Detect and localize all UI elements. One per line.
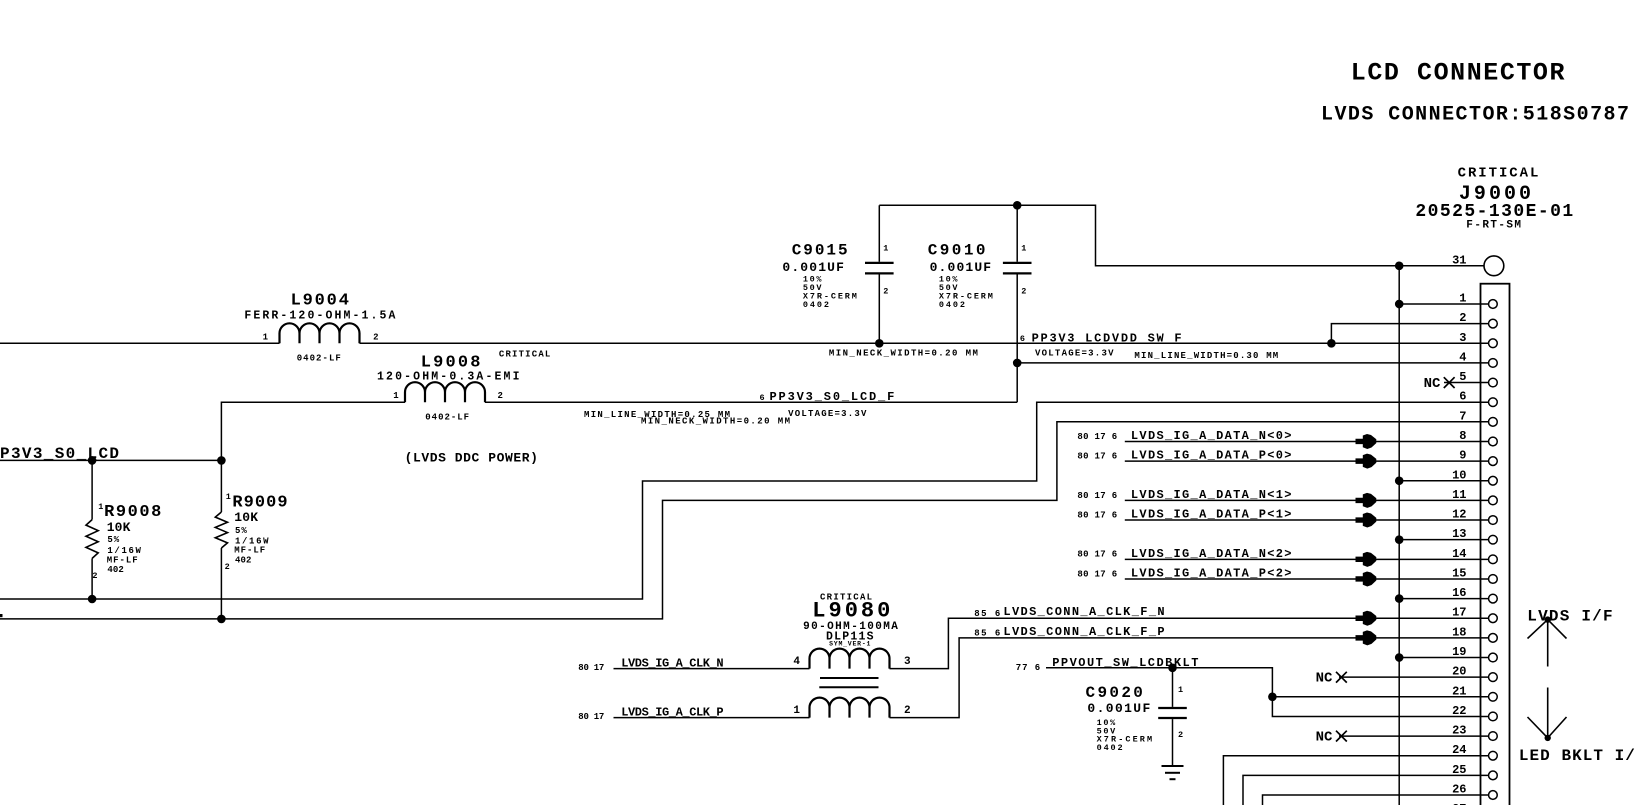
svg-text:80 17: 80 17 bbox=[578, 712, 604, 722]
R9009 tolerance 5% bbox=[235, 526, 247, 536]
wire L9008 left leg bbox=[221, 402, 405, 460]
net name LVDS_CONN_A_CLK_F_P bbox=[1003, 625, 1164, 639]
wire bus to pin 10 bbox=[1399, 480, 1488, 482]
net ref 85 6 (CLK_F_P) bbox=[974, 629, 1000, 639]
L9080 pin 1 bbox=[793, 705, 800, 717]
svg-text:80 17 6: 80 17 6 bbox=[1077, 569, 1117, 579]
C9015 value 0.001UF bbox=[782, 260, 844, 275]
svg-text:(LVDS DDC POWER): (LVDS DDC POWER) bbox=[405, 451, 538, 466]
L9080 pin 3 bbox=[904, 656, 911, 668]
R9008 type MF-LF bbox=[107, 555, 138, 565]
svg-text:0402-LF: 0402-LF bbox=[425, 413, 469, 423]
capacitor C9010 bbox=[1003, 205, 1032, 402]
junction C9020 top bbox=[1168, 664, 1177, 673]
junction C9010 pin4 branch bbox=[1013, 359, 1022, 368]
wire top net W1 bbox=[879, 205, 1484, 265]
wire LVDS_IG_A_CLK_N bbox=[614, 668, 810, 670]
C9020 value 0.001UF bbox=[1087, 701, 1150, 716]
L9080 part DLP11S bbox=[826, 630, 874, 643]
net name LVDS_IG_A_DATA_N<2> bbox=[1131, 547, 1292, 561]
svg-text:C9015: C9015 bbox=[792, 241, 848, 259]
NC cross pin 23 bbox=[1336, 731, 1347, 742]
svg-text:MIN_NECK_WIDTH=0.20 MM: MIN_NECK_WIDTH=0.20 MM bbox=[641, 417, 790, 427]
wire LVDS_IG_A_DATA_P<1> to pin 12 bbox=[1125, 519, 1489, 521]
wire to pin 26 bbox=[1263, 795, 1489, 805]
net ref 80 17 6 (row 8) bbox=[1077, 432, 1117, 442]
C9015 tolerance 10% bbox=[803, 274, 822, 284]
svg-text:77 6: 77 6 bbox=[1016, 663, 1040, 673]
svg-text:1: 1 bbox=[1021, 244, 1026, 254]
svg-text:1: 1 bbox=[98, 502, 103, 512]
junction C9015 bottom bbox=[875, 339, 884, 348]
net ref 6 (S0_LCD_F) bbox=[760, 393, 765, 403]
svg-text:L9080: L9080 bbox=[812, 599, 890, 624]
net name PP3V3 LCDVDD SW F bbox=[1032, 332, 1182, 346]
C9010 value 0.001UF bbox=[930, 260, 992, 275]
svg-text:VOLTAGE=3.3V: VOLTAGE=3.3V bbox=[788, 409, 867, 419]
L9080 winding A bbox=[810, 649, 890, 669]
wire to pin 24 bbox=[1223, 756, 1488, 805]
label CRITICAL (L9008) bbox=[499, 350, 550, 360]
NC cross pin 5 bbox=[1444, 377, 1455, 388]
net ref 80 17 6 (row 15) bbox=[1077, 569, 1117, 579]
property MIN_LINE_WIDTH=0.30 MM bbox=[1134, 351, 1278, 361]
wire LVDS_IG_A_DATA_N<0> to pin 8 bbox=[1125, 440, 1489, 442]
junction pin2 branch bbox=[1327, 339, 1336, 348]
net name LVDS_IG_A_DATA_P<0> bbox=[1131, 449, 1292, 463]
svg-text:2: 2 bbox=[883, 287, 888, 297]
bus wire vertical bbox=[1398, 266, 1400, 805]
C9020 voltage 50V bbox=[1097, 726, 1116, 736]
junction bus pin 19 bbox=[1395, 653, 1404, 662]
capacitor C9015 bbox=[865, 205, 894, 343]
svg-text:FERR-120-OHM-1.5A: FERR-120-OHM-1.5A bbox=[244, 310, 395, 323]
L9008 pin 1 bbox=[393, 391, 399, 401]
svg-text:0402-LF: 0402-LF bbox=[297, 354, 341, 364]
junction pin 21 branch bbox=[1268, 693, 1277, 702]
R9008 package 402 bbox=[107, 565, 123, 575]
net ref 80 17 6 (row 11) bbox=[1077, 491, 1117, 501]
net name LVDS_IG_A_CLK_N bbox=[621, 656, 723, 670]
J9000 package F-RT-SM bbox=[1466, 219, 1521, 231]
resistor R9008 bbox=[86, 460, 98, 599]
wire bus to pin 19 bbox=[1399, 657, 1488, 659]
R9009 refdes bbox=[232, 493, 287, 512]
net ref 80 17 6 (row 9) bbox=[1077, 452, 1117, 462]
svg-text:0.001UF: 0.001UF bbox=[930, 260, 992, 275]
svg-text:10K: 10K bbox=[234, 510, 258, 525]
svg-text:85 6: 85 6 bbox=[974, 609, 1000, 619]
arrow LVDS_CONN_A_CLK_F_P bbox=[1356, 630, 1377, 645]
junction bus pin 1 bbox=[1395, 300, 1404, 309]
R9008 value 10K bbox=[107, 520, 131, 535]
svg-text:CRITICAL: CRITICAL bbox=[499, 350, 550, 360]
NC label pin 5 bbox=[1424, 376, 1441, 392]
wire PPVOUT_SW_LCDBKLT bbox=[1046, 668, 1489, 717]
L9080 pin 2 bbox=[904, 705, 911, 717]
wire LVDS_IG_A_DATA_P<2> to pin 15 bbox=[1125, 578, 1489, 580]
C9015 voltage 50V bbox=[803, 283, 822, 293]
L9008 pin 2 bbox=[498, 391, 503, 401]
property MIN_LINE_WIDTH=0.25 MM bbox=[584, 410, 730, 420]
R9009 type MF-LF bbox=[234, 546, 265, 556]
R9008 refdes bbox=[104, 503, 161, 522]
arrow up LVDS I/F bbox=[1528, 616, 1567, 666]
inductor L9004 bbox=[280, 323, 360, 343]
net ref 85 6 (CLK_F_N) bbox=[974, 609, 1000, 619]
L9004 value FERR-120-OHM-1.5A bbox=[244, 310, 395, 323]
label LVDS I/F bbox=[1527, 607, 1612, 625]
arrow down LED BKLT I/F bbox=[1528, 688, 1567, 742]
R9009 power 1/16W bbox=[235, 536, 269, 546]
wire PP3V3_S0_LCD_F bbox=[485, 401, 1017, 403]
svg-text:C9010: C9010 bbox=[928, 241, 986, 259]
C9015 refdes bbox=[792, 241, 848, 259]
svg-text:80 17: 80 17 bbox=[578, 663, 604, 673]
L9080 SYM_VER-1 bbox=[829, 641, 870, 648]
pin 31 circle bbox=[1484, 256, 1504, 276]
wire PP3V3_S0_LCD bbox=[0, 459, 221, 461]
svg-text:MF-LF: MF-LF bbox=[107, 555, 138, 565]
wire NC pin 5 bbox=[1444, 382, 1489, 384]
wire LVDS_CONN_A_CLK_F_P to pin 18 bbox=[890, 638, 1489, 718]
net name PP3V3_S0_LCD (clipped) bbox=[0, 445, 119, 463]
svg-text:1: 1 bbox=[793, 705, 800, 717]
net ref 77 6 bbox=[1016, 663, 1040, 673]
junction R9009 bottom bbox=[217, 615, 226, 624]
C9015 package 0402 bbox=[803, 300, 829, 310]
svg-text:80 17 6: 80 17 6 bbox=[1077, 432, 1117, 442]
svg-text:PP3V3_S0_LCD_F: PP3V3_S0_LCD_F bbox=[770, 390, 895, 404]
NC label pin 20 bbox=[1316, 671, 1333, 687]
net ref 80 17 (CLK_N) bbox=[578, 663, 604, 673]
arrow LVDS_IG_A_DATA_P<2> bbox=[1356, 571, 1377, 586]
C9020 pin 1 bbox=[1178, 685, 1183, 695]
wire bus to pin 16 bbox=[1399, 598, 1488, 600]
net ref 80 17 6 (row 12) bbox=[1077, 510, 1117, 520]
svg-text:LVDS I/F: LVDS I/F bbox=[1527, 607, 1612, 625]
svg-text:2: 2 bbox=[92, 571, 97, 581]
svg-text:VOLTAGE=3.3V: VOLTAGE=3.3V bbox=[1035, 349, 1114, 359]
svg-text:C9020: C9020 bbox=[1086, 684, 1143, 702]
subtitle LVDS CONNECTOR:518S0787 bbox=[1321, 103, 1629, 126]
svg-text:80 17 6: 80 17 6 bbox=[1077, 550, 1117, 560]
svg-text:P3V3_S0_LCD: P3V3_S0_LCD bbox=[0, 445, 119, 463]
svg-text:0.001UF: 0.001UF bbox=[1087, 701, 1150, 716]
connector pin numbers 1-27 bbox=[1452, 292, 1466, 805]
svg-text:NC: NC bbox=[1316, 729, 1333, 745]
svg-text:2: 2 bbox=[1021, 287, 1026, 297]
svg-text:1: 1 bbox=[883, 244, 888, 254]
C9015 pin 2 bbox=[883, 287, 888, 297]
net name LVDS_IG_A_DATA_N<0> bbox=[1131, 429, 1292, 443]
wire branch to pin 21 bbox=[1272, 696, 1488, 698]
net name LVDS_IG_A_DATA_N<1> bbox=[1131, 488, 1292, 502]
svg-text:LED BKLT I/F: LED BKLT I/F bbox=[1519, 747, 1635, 765]
svg-text:6: 6 bbox=[1020, 334, 1025, 344]
R9008 tolerance 5% bbox=[107, 535, 119, 545]
L9080 value 90-OHM-100MA bbox=[803, 621, 898, 633]
svg-text:2: 2 bbox=[1178, 730, 1183, 740]
C9015 pin 1 bbox=[883, 244, 888, 254]
inductor L9008 bbox=[405, 382, 485, 402]
net ref 6 (LCDVDD) bbox=[1020, 334, 1025, 344]
label CRITICAL (J9000) bbox=[1458, 165, 1539, 181]
arrow LVDS_CONN_A_CLK_F_N bbox=[1356, 611, 1377, 626]
net name LVDS_IG_A_CLK_P bbox=[621, 705, 723, 719]
R9008 pin 1 bbox=[98, 502, 103, 512]
C9010 pin 2 bbox=[1021, 287, 1026, 297]
L9004 pin 1 bbox=[263, 333, 269, 343]
junction bus pin 10 bbox=[1395, 476, 1404, 485]
svg-text:80 17 6: 80 17 6 bbox=[1077, 510, 1117, 520]
title LCD CONNECTOR bbox=[1351, 59, 1565, 88]
wire LVDS_IG_A_DATA_N<2> to pin 14 bbox=[1125, 558, 1489, 560]
L9004 package 0402-LF bbox=[297, 354, 341, 364]
arrow LVDS_IG_A_DATA_N<2> bbox=[1356, 552, 1377, 567]
L9008 value 120-OHM-0.3A-EMI bbox=[377, 371, 520, 384]
connector pin circles 1-26 bbox=[1489, 300, 1498, 800]
svg-text:MIN_NECK_WIDTH=0.20 MM: MIN_NECK_WIDTH=0.20 MM bbox=[829, 348, 978, 358]
connector J9000 body bbox=[1481, 284, 1510, 805]
L9080 core bbox=[819, 678, 878, 687]
clipped glyph left edge bbox=[0, 614, 3, 617]
junction bus pin 16 bbox=[1395, 594, 1404, 603]
wire pin 2 branch bbox=[1331, 324, 1488, 344]
L9004 pin 2 bbox=[373, 333, 378, 343]
R9008 pin 2 bbox=[92, 571, 97, 581]
svg-text:5%: 5% bbox=[235, 526, 247, 536]
R9009 pin 2 bbox=[225, 562, 230, 572]
arrow LVDS_IG_A_DATA_N<0> bbox=[1356, 434, 1377, 449]
svg-text:6: 6 bbox=[760, 393, 765, 403]
L9080 refdes bbox=[812, 599, 890, 624]
junction C9010 top bbox=[1013, 201, 1022, 210]
C9010 package 0402 bbox=[939, 300, 965, 310]
wire bus to pin 13 bbox=[1399, 539, 1488, 541]
svg-text:2: 2 bbox=[373, 333, 378, 343]
svg-text:3: 3 bbox=[904, 656, 911, 668]
svg-text:5%: 5% bbox=[107, 535, 119, 545]
R9009 value 10K bbox=[234, 510, 258, 525]
junction R9008 top bbox=[88, 456, 97, 465]
C9010 voltage 50V bbox=[939, 283, 958, 293]
ground symbol bbox=[1162, 766, 1184, 779]
svg-text:PP3V3 LCDVDD SW F: PP3V3 LCDVDD SW F bbox=[1032, 332, 1182, 346]
svg-text:0402: 0402 bbox=[939, 300, 965, 310]
pin number 31 bbox=[1452, 253, 1466, 267]
svg-text:MF-LF: MF-LF bbox=[234, 546, 265, 556]
property MIN_NECK_WIDTH=0.20 MM (S0_LCD_F) bbox=[641, 417, 790, 427]
svg-text:L9004: L9004 bbox=[291, 292, 349, 311]
svg-text:85 6: 85 6 bbox=[974, 629, 1000, 639]
connector J9000 refdes bbox=[1459, 183, 1531, 206]
capacitor C9020 bbox=[1158, 668, 1187, 765]
wire bus to pin 1 bbox=[1399, 303, 1488, 305]
C9020 refdes bbox=[1086, 684, 1143, 702]
net ref 80 17 6 (row 14) bbox=[1077, 550, 1117, 560]
C9020 package 0402 bbox=[1097, 743, 1123, 753]
note (LVDS DDC POWER) bbox=[405, 451, 538, 466]
arrow LVDS_IG_A_DATA_P<0> bbox=[1356, 454, 1377, 469]
svg-text:2: 2 bbox=[498, 391, 503, 401]
wire LVDS_CONN_A_CLK_F_N to pin 17 bbox=[890, 618, 1489, 668]
svg-text:LVDS CONNECTOR:518S0787: LVDS CONNECTOR:518S0787 bbox=[1321, 103, 1629, 126]
C9010 pin 1 bbox=[1021, 244, 1026, 254]
svg-text:1: 1 bbox=[1178, 685, 1183, 695]
svg-text:SYM_VER-1: SYM_VER-1 bbox=[829, 641, 870, 648]
wire return net to pin 7 bbox=[0, 422, 1489, 619]
NC cross pin 20 bbox=[1336, 672, 1347, 683]
R9009 pin 1 bbox=[226, 492, 231, 502]
L9080 winding B bbox=[810, 698, 890, 718]
svg-text:80 17 6: 80 17 6 bbox=[1077, 491, 1117, 501]
svg-text:MIN_LINE_WIDTH=0.30 MM: MIN_LINE_WIDTH=0.30 MM bbox=[1134, 351, 1278, 361]
property VOLTAGE=3.3V (S0_LCD_F) bbox=[788, 409, 867, 419]
junction R9008 bottom bbox=[88, 595, 97, 604]
wire NC pin 23 bbox=[1339, 735, 1489, 737]
L9008 package 0402-LF bbox=[425, 413, 469, 423]
svg-text:LVDS_CONN_A_CLK_F_N: LVDS_CONN_A_CLK_F_N bbox=[1003, 605, 1164, 619]
C9010 tolerance 10% bbox=[939, 274, 958, 284]
svg-text:2: 2 bbox=[904, 705, 911, 717]
svg-text:1: 1 bbox=[226, 492, 231, 502]
svg-text:0402: 0402 bbox=[803, 300, 829, 310]
resistor R9009 bbox=[215, 460, 227, 619]
wire return net to pin 6 bbox=[0, 402, 1489, 599]
net ref 80 17 (CLK_P) bbox=[578, 712, 604, 722]
R9008 power 1/16W bbox=[107, 546, 141, 556]
net name LVDS_CONN_A_CLK_F_N bbox=[1003, 605, 1164, 619]
svg-text:1: 1 bbox=[263, 333, 269, 343]
svg-text:LVDS_CONN_A_CLK_F_P: LVDS_CONN_A_CLK_F_P bbox=[1003, 625, 1164, 639]
svg-text:0402: 0402 bbox=[1097, 743, 1123, 753]
property MIN_NECK_WIDTH=0.20 MM (LCDVDD) bbox=[829, 348, 978, 358]
J9000 part number 20525-130E-01 bbox=[1415, 202, 1573, 222]
junction bus top bbox=[1395, 262, 1404, 271]
C9010 refdes bbox=[928, 241, 986, 259]
svg-text:402: 402 bbox=[107, 565, 123, 575]
wire to pin 4 bbox=[1017, 362, 1488, 364]
NC label pin 23 bbox=[1316, 729, 1333, 745]
wire PP3V3_LCDVDD_SW_F right to pin 3 bbox=[360, 342, 1489, 344]
C9020 tolerance 10% bbox=[1097, 718, 1116, 728]
C9010 dielectric X7R-CERM bbox=[939, 291, 993, 301]
junction R9009 top bbox=[217, 456, 226, 465]
label CRITICAL (L9080) bbox=[820, 593, 872, 603]
arrow LVDS_IG_A_DATA_P<1> bbox=[1356, 513, 1377, 528]
C9020 pin 2 bbox=[1178, 730, 1183, 740]
label LED BKLT I/F bbox=[1519, 747, 1635, 765]
svg-text:10K: 10K bbox=[107, 520, 131, 535]
net name PPVOUT_SW_LCDBKLT bbox=[1052, 656, 1198, 670]
svg-text:80 17 6: 80 17 6 bbox=[1077, 452, 1117, 462]
net name LVDS_IG_A_DATA_P<1> bbox=[1131, 508, 1292, 522]
wire LVDS_IG_A_DATA_P<0> to pin 9 bbox=[1125, 460, 1489, 462]
C9020 dielectric X7R-CERM bbox=[1097, 735, 1153, 745]
svg-text:NC: NC bbox=[1424, 376, 1441, 392]
svg-text:CRITICAL: CRITICAL bbox=[1458, 165, 1539, 181]
wire NC pin 20 bbox=[1339, 676, 1489, 678]
junction bus pin 13 bbox=[1395, 535, 1404, 544]
wire LVDS_IG_A_CLK_P bbox=[614, 717, 810, 719]
svg-text:402: 402 bbox=[235, 555, 251, 565]
L9004 refdes bbox=[291, 292, 349, 311]
L9008 refdes bbox=[421, 354, 481, 373]
R9009 package 402 bbox=[235, 555, 251, 565]
svg-text:0.001UF: 0.001UF bbox=[782, 260, 844, 275]
svg-text:NC: NC bbox=[1316, 671, 1333, 687]
property VOLTAGE=3.3V (LCDVDD) bbox=[1035, 349, 1114, 359]
svg-text:1: 1 bbox=[393, 391, 399, 401]
svg-text:2: 2 bbox=[225, 562, 230, 572]
C9015 dielectric X7R-CERM bbox=[803, 291, 857, 301]
svg-text:4: 4 bbox=[793, 656, 800, 668]
wire to pin 25 bbox=[1243, 775, 1489, 805]
net name LVDS_IG_A_DATA_P<2> bbox=[1131, 567, 1292, 581]
net name PP3V3_S0_LCD_F bbox=[770, 390, 895, 404]
wire LVDS_IG_A_DATA_N<1> to pin 11 bbox=[1125, 499, 1489, 501]
arrow LVDS_IG_A_DATA_N<1> bbox=[1356, 493, 1377, 508]
wire PP3V3_LCDVDD_SW_F left bbox=[0, 342, 280, 344]
L9080 pin 4 bbox=[793, 656, 800, 668]
